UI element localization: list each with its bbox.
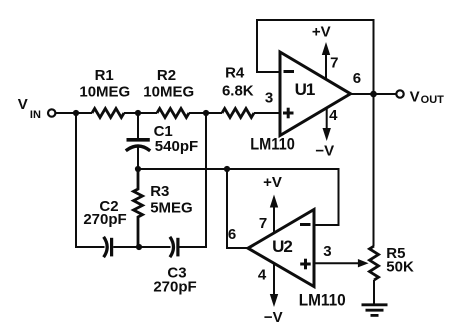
terminal V_OUT <box>396 90 403 97</box>
wire: node B to R2 <box>138 112 157 114</box>
label LM110 (U1) <box>250 135 294 154</box>
U2 plus input symbol <box>300 259 311 270</box>
wire: C1 to node D <box>137 147 139 170</box>
svg-text:+V: +V <box>312 24 331 41</box>
U2 -V supply arrow, pin 4 <box>270 263 278 307</box>
R5 wiper arrow <box>358 259 369 267</box>
wire: R5 to ground <box>373 280 375 304</box>
pin 3 label U1 <box>265 90 273 107</box>
U1 -V supply arrow, pin 4 <box>323 108 331 141</box>
wire: U1 feedback output to minus input <box>257 20 374 94</box>
capacitor C1 <box>126 140 150 151</box>
wire: R4 to U1 pin 3 <box>254 112 280 114</box>
svg-text:6.8K: 6.8K <box>222 82 254 99</box>
op-amp U1 <box>280 52 351 136</box>
svg-text:+V: +V <box>263 174 282 191</box>
svg-text:50K: 50K <box>386 258 414 275</box>
wire: C3 up to node C <box>180 113 207 247</box>
label R3 <box>150 183 193 216</box>
svg-text:4: 4 <box>258 267 267 284</box>
svg-text:5MEG: 5MEG <box>150 200 193 217</box>
resistor R3 <box>134 169 143 247</box>
label U2 <box>272 237 292 256</box>
pin 4 label U1 <box>329 107 338 124</box>
node A (input junction) <box>73 110 79 116</box>
svg-text:6: 6 <box>228 226 236 243</box>
wire: node A to R1 <box>76 112 92 114</box>
pin 7 label U2 <box>259 215 267 232</box>
svg-text:R3: R3 <box>150 183 169 200</box>
resistor R2 <box>157 109 189 118</box>
wire: node C to R4 <box>206 112 222 114</box>
svg-text:3: 3 <box>323 243 331 260</box>
wire: node E to U2 minus input corner <box>227 169 339 225</box>
label LM110 (U2) <box>299 291 346 310</box>
node B (R1-R2-C1 junction) <box>135 110 141 116</box>
label R2 <box>143 67 194 101</box>
wire: R2 to node C <box>189 112 206 114</box>
pin 7 label U1 <box>330 54 338 71</box>
svg-text:R1: R1 <box>95 67 114 84</box>
U2 minus input symbol <box>300 223 311 226</box>
svg-text:V: V <box>410 88 420 105</box>
svg-text:4: 4 <box>329 107 338 124</box>
wire: U2 pin 3 to R5 wiper <box>314 262 359 264</box>
svg-text:IN: IN <box>30 109 41 121</box>
svg-text:7: 7 <box>259 215 267 232</box>
wire: node F to C3 <box>139 246 171 248</box>
resistor R4 <box>222 109 254 118</box>
svg-text:LM110: LM110 <box>250 135 294 154</box>
svg-text:6: 6 <box>353 70 361 87</box>
node C (R2-R4 junction) <box>203 110 209 116</box>
label U1 <box>295 80 315 99</box>
label +V (U1) <box>312 24 331 41</box>
label C2 <box>83 198 126 228</box>
U2 +V supply arrow, pin 7 <box>270 195 278 234</box>
svg-text:270pF: 270pF <box>83 211 126 228</box>
wire: left branch node A down <box>76 113 105 247</box>
label C3 <box>153 264 196 295</box>
label R5 <box>386 245 414 275</box>
U1 +V supply arrow, pin 7 <box>322 42 330 80</box>
label V_IN <box>18 96 41 121</box>
svg-text:10MEG: 10MEG <box>79 84 130 101</box>
resistor R5 <box>370 246 379 280</box>
U1 plus input symbol <box>283 108 294 119</box>
U1 minus input symbol <box>284 70 295 73</box>
ground <box>362 305 388 316</box>
pin 3 label U2 <box>323 243 331 260</box>
wire: C2 to node F <box>113 246 139 248</box>
svg-text:U1: U1 <box>295 80 315 99</box>
pin 4 label U2 <box>258 267 267 284</box>
resistor R1 <box>92 109 124 118</box>
wire: U2 output pin 6 <box>227 169 248 248</box>
wire: output node down to R5 <box>373 94 376 246</box>
label -V (U2) <box>264 309 283 326</box>
svg-text:3: 3 <box>265 90 273 107</box>
svg-text:270pF: 270pF <box>153 279 196 296</box>
node F (C2-C3-R3 junction) <box>136 244 142 250</box>
pin 6 label U1 <box>353 70 361 87</box>
svg-text:V: V <box>18 96 28 113</box>
svg-text:−V: −V <box>264 309 283 326</box>
label R1 <box>79 67 130 101</box>
node G (output junction) <box>370 91 377 98</box>
svg-text:540pF: 540pF <box>155 138 198 155</box>
wire: U1 output pin 6 <box>351 93 397 95</box>
svg-text:10MEG: 10MEG <box>143 84 194 101</box>
label -V (U1) <box>315 143 334 160</box>
capacitor C3 <box>170 237 178 257</box>
wire: R1 to node B <box>124 112 138 114</box>
node D (C1-R3-bootstrap junction) <box>135 166 141 172</box>
svg-text:OUT: OUT <box>421 94 445 106</box>
svg-text:LM110: LM110 <box>299 291 346 310</box>
op-amp U2 <box>248 210 314 287</box>
capacitor C2 <box>104 237 112 257</box>
node E (U2 output junction) <box>224 166 230 172</box>
label V_OUT <box>410 88 445 106</box>
label R4 <box>222 65 254 100</box>
wire: C1 branch from node B <box>137 113 139 138</box>
svg-text:R2: R2 <box>157 67 176 84</box>
svg-text:7: 7 <box>330 54 338 71</box>
svg-text:U2: U2 <box>272 237 292 256</box>
svg-text:−V: −V <box>315 143 334 160</box>
terminal V_IN <box>48 109 55 116</box>
svg-text:R4: R4 <box>225 65 245 82</box>
label C1 <box>154 123 199 155</box>
pin 6 label U2 <box>228 226 236 243</box>
wire: bootstrap net node D to node E <box>138 168 227 170</box>
label +V (U2) <box>263 174 282 191</box>
wire: V_IN terminal to node A <box>56 112 76 114</box>
